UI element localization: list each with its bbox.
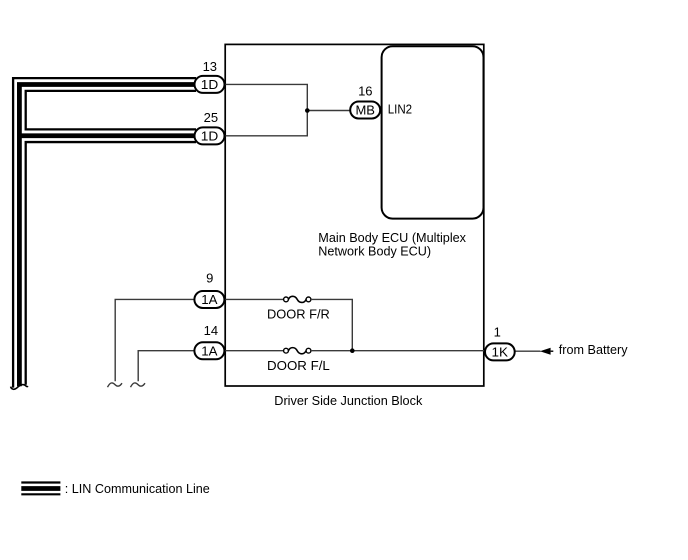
- wire: LIN band thick center line (pin25 branch): [19, 133, 196, 138]
- node: junction dot at loop midpoint: [305, 108, 310, 113]
- connector 1K pin 1: [485, 343, 515, 360]
- svg-text:1K: 1K: [492, 345, 509, 360]
- svg-text:from Battery: from Battery: [559, 342, 628, 357]
- wire: LIN band outer thin line (pin13 branch + left vertical): [13, 78, 196, 387]
- junction block outline (Driver Side Junction Block): [225, 44, 484, 386]
- wire: pin 13 to pin 25 loop inside junction block: [226, 84, 308, 135]
- svg-text:LIN2: LIN2: [388, 102, 412, 117]
- svg-text:1D: 1D: [201, 77, 219, 92]
- fuse DOOR F/L: [284, 348, 311, 354]
- wire: LIN band lower thin line (pin25 branch + right vertical tail): [26, 142, 196, 385]
- svg-text:Driver Side Junction Block: Driver Side Junction Block: [274, 393, 422, 408]
- svg-text:1D: 1D: [201, 129, 219, 144]
- svg-text:1A: 1A: [201, 292, 218, 307]
- wire: loop to MB connector: [307, 110, 350, 112]
- svg-text:16: 16: [358, 83, 372, 98]
- wire: connector 1K to battery feed: [515, 350, 541, 352]
- svg-text:MB: MB: [355, 103, 375, 118]
- wire: DOOR F/R fuse output down to node: [311, 299, 352, 350]
- svg-text:DOOR F/R: DOOR F/R: [267, 307, 330, 322]
- label Main Body ECU: [318, 230, 466, 258]
- connector MB pin 16: [350, 102, 380, 119]
- connector 1D pin 25: [195, 127, 225, 144]
- wire: pin 14 lead continuation squiggle: [131, 383, 146, 387]
- svg-text:: LIN Communication Line: : LIN Communication Line: [65, 481, 210, 496]
- connector 1A pin 9: [194, 291, 224, 308]
- svg-text:DOOR F/L: DOOR F/L: [267, 358, 330, 373]
- node: junction dot DOOR F/R to F/L: [350, 348, 355, 353]
- connector 1A pin 14: [194, 342, 224, 359]
- wire: DOOR F/L fuse to connector 1K: [311, 350, 485, 352]
- wire: pin 9 to DOOR F/R fuse: [225, 298, 284, 300]
- ECU box U1 (Main Body ECU): [382, 46, 484, 218]
- wire: LIN band end break squiggle: [11, 385, 28, 390]
- svg-text:1: 1: [494, 325, 501, 340]
- svg-text:14: 14: [204, 323, 218, 338]
- svg-text:9: 9: [206, 270, 213, 285]
- wire: connector 1A pin 14 lead left and down: [138, 351, 194, 382]
- wire: connector 1A pin 9 lead left and down: [115, 299, 194, 381]
- legend: LIN band swatch: [21, 483, 60, 495]
- arrow: from Battery feed: [540, 348, 553, 355]
- svg-text:Network Body ECU): Network Body ECU): [318, 243, 431, 258]
- svg-text:25: 25: [204, 110, 218, 125]
- wire: LIN band inner thin U (pin13 lower edge, pin25 upper edge): [26, 91, 196, 130]
- svg-text:13: 13: [203, 59, 217, 74]
- fuse DOOR F/R: [284, 296, 311, 302]
- wire: pin 9 lead continuation squiggle: [108, 383, 123, 387]
- wire: pin 14 to DOOR F/L fuse: [225, 350, 284, 352]
- connector 1D pin 13: [195, 76, 225, 93]
- svg-text:1A: 1A: [201, 344, 218, 359]
- wire: LIN band thick center line (pin13 branch + vertical): [19, 85, 196, 387]
